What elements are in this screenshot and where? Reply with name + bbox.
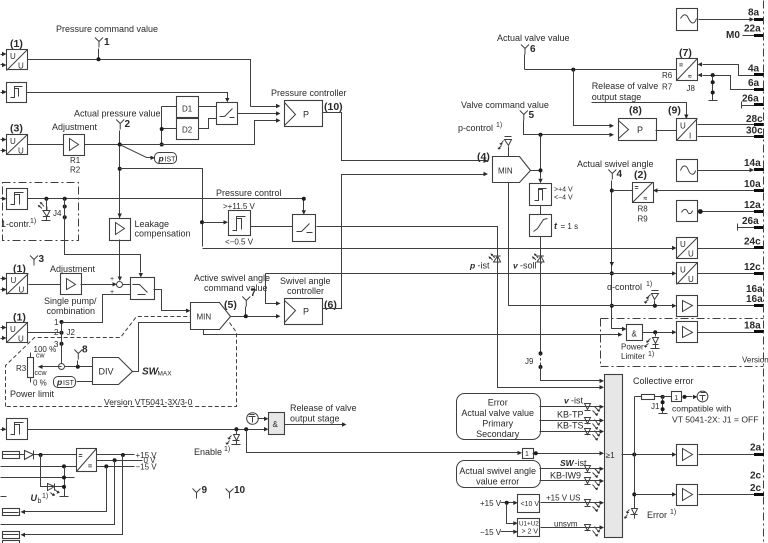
jumper J8 to ground: [712, 76, 714, 97]
svg-text:P: P: [303, 110, 309, 120]
svg-text:Swivel angle: Swivel angle: [280, 276, 331, 286]
wire supply input row3: [1, 477, 75, 479]
svg-text:Valve command value: Valve command value: [461, 100, 549, 110]
wire MIN5 output: [231, 316, 277, 318]
svg-text:MIN: MIN: [197, 313, 212, 322]
svg-text:Actual valve value: Actual valve value: [497, 33, 570, 43]
svg-text:1: 1: [104, 37, 110, 48]
svg-text:U: U: [18, 62, 24, 71]
svg-text:p: p: [469, 261, 475, 271]
svg-text:SW: SW: [560, 458, 575, 468]
svg-text:=: =: [679, 63, 683, 70]
svg-text:1: 1: [674, 395, 678, 402]
svg-text:IST: IST: [165, 157, 177, 164]
svg-text:7: 7: [251, 288, 257, 299]
switch S3 pump selector: [131, 278, 155, 300]
svg-text:cw: cw: [36, 353, 46, 360]
svg-text:U: U: [688, 250, 694, 259]
svg-text:D2: D2: [182, 126, 193, 135]
svg-text:14a: 14a: [744, 158, 761, 169]
LED 1-contr indicator: [46, 199, 48, 211]
fuse terminal 2: [3, 509, 20, 516]
svg-text:J2: J2: [67, 328, 76, 337]
characteristic selector D2: [177, 119, 199, 140]
amplifier 16a: [677, 296, 698, 317]
svg-text:(5): (5): [224, 299, 237, 311]
svg-text:R8: R8: [638, 205, 649, 214]
svg-text:5: 5: [529, 110, 535, 121]
wire supply input row2: [1, 466, 77, 468]
svg-text:+: +: [110, 276, 114, 283]
svg-text:output stage: output stage: [592, 92, 642, 102]
wire leakage to summing: [119, 240, 121, 277]
svg-text:P: P: [637, 125, 643, 135]
terminal 16a: [754, 304, 764, 307]
svg-text:J4: J4: [53, 209, 62, 218]
terminal 9: [193, 489, 201, 499]
wire enable to monitoring: [247, 430, 518, 453]
svg-text:KB-TS: KB-TS: [557, 421, 584, 431]
svg-text:=: =: [635, 185, 639, 192]
limiter block (hysteresis) row2: [7, 83, 27, 103]
op-amp P10 pressure controller: [285, 101, 323, 127]
svg-text:KB-TP: KB-TP: [557, 410, 584, 420]
display p-IST upper: [155, 153, 177, 164]
LED v-soll: [532, 253, 544, 264]
svg-text:Pressure controller: Pressure controller: [271, 88, 347, 98]
wire 0V return: [1, 461, 115, 525]
oscillator 12a: [677, 201, 698, 222]
svg-text:KB-IW9: KB-IW9: [550, 471, 581, 481]
border dash-dot right edge: [763, 1, 765, 543]
wire actual valve value net: [525, 69, 677, 71]
svg-text:6a: 6a: [748, 78, 760, 89]
dash-dot version sub-box right: [601, 319, 764, 367]
amplifier 2a: [677, 445, 698, 466]
svg-text:compatible with: compatible with: [672, 404, 731, 414]
svg-text:I: I: [689, 132, 691, 141]
svg-text:value error: value error: [476, 477, 519, 487]
wire 28c 30c outputs: [698, 125, 755, 137]
wire power limiter output 18a: [643, 332, 673, 334]
svg-text:p: p: [158, 154, 164, 164]
and-gate release: [269, 413, 285, 435]
lamp symbol collective: [697, 391, 708, 402]
svg-text:-ist: -ist: [571, 396, 583, 406]
svg-text:U: U: [680, 240, 686, 249]
svg-text:Actual valve value: Actual valve value: [461, 408, 534, 418]
wire release to U/I block: [592, 103, 687, 115]
wire to amplifier 2c: [635, 494, 673, 496]
limiter block 1-contr: [7, 189, 28, 210]
svg-text:16a: 16a: [746, 294, 763, 305]
svg-text:1: 1: [525, 451, 529, 458]
wire +15V rail: [97, 454, 135, 456]
terminal 26a lower test tap: [738, 224, 755, 231]
svg-text:30c: 30c: [746, 126, 763, 137]
svg-text:Single pump/: Single pump/: [44, 296, 97, 306]
terminal 12a: [754, 210, 764, 213]
svg-text:controller: controller: [287, 286, 324, 296]
timer symbol circle: [247, 413, 259, 425]
svg-text:28c: 28c: [746, 114, 763, 125]
svg-text:J8: J8: [687, 84, 696, 93]
wire summing to switch3: [123, 284, 131, 286]
svg-text:(4): (4): [477, 151, 490, 163]
wire swivel actual vertical: [612, 181, 623, 329]
terminal 7: [242, 297, 250, 307]
comparator U1+U2>2V: [507, 503, 514, 524]
svg-text:>+4 V: >+4 V: [554, 187, 573, 194]
wire D1 D2 inputs: [162, 107, 177, 145]
wire v-soll line down: [540, 237, 542, 354]
wire p-actual branch to 24c row: [120, 169, 203, 247]
svg-text:Power limit: Power limit: [10, 389, 55, 399]
oscillator 8a: [677, 9, 698, 31]
svg-text:Primary: Primary: [482, 419, 513, 429]
svg-text:Error: Error: [647, 510, 667, 520]
svg-text:Adjustment: Adjustment: [50, 264, 96, 274]
svg-text:6: 6: [530, 44, 536, 55]
svg-text:Pressure command value: Pressure command value: [56, 24, 158, 34]
ramp generator t=1s: [540, 206, 542, 215]
fuse terminal 3: [3, 532, 20, 539]
svg-text:J9: J9: [525, 357, 534, 366]
svg-text:1-contr.: 1-contr.: [1, 219, 31, 229]
summing circle power limit: [59, 364, 65, 370]
svg-text:Version: Version: [742, 356, 768, 365]
svg-text:R1: R1: [70, 156, 81, 165]
svg-text:output stage: output stage: [290, 414, 340, 424]
svg-text:+15 V: +15 V: [480, 499, 502, 508]
wire P6 output to MIN4: [323, 175, 484, 309]
fuse terminal 4 partial: [3, 541, 20, 543]
svg-text:12c: 12c: [744, 262, 761, 273]
svg-text:1): 1): [646, 281, 652, 288]
svg-text:R7: R7: [662, 83, 673, 92]
terminal 1: [95, 38, 103, 48]
svg-text:−15 V: −15 V: [136, 463, 158, 472]
wire MIN5 bottom tap bus: [204, 330, 619, 335]
svg-text:Collective error: Collective error: [633, 376, 694, 386]
terminal 2: [116, 120, 124, 130]
terminal 4a: [754, 73, 764, 76]
wire MIN4 output node: [531, 135, 541, 179]
amplifier 18a: [677, 322, 698, 343]
wire switch1 to P10: [238, 113, 277, 115]
wire input arrows block1: [1, 55, 3, 65]
svg-text:=: =: [88, 464, 92, 471]
and-gate power limiter: [627, 325, 643, 341]
svg-text:b: b: [38, 498, 42, 505]
LED enable: [236, 430, 238, 435]
wire -15V to fuse2: [25, 467, 107, 512]
diode supply: [19, 451, 77, 460]
svg-text:(1): (1): [10, 38, 23, 50]
LED power limiter: [655, 333, 657, 337]
comparator +-4V: [530, 184, 552, 206]
svg-text:18a: 18a: [744, 321, 761, 332]
svg-text:p-control: p-control: [458, 123, 493, 133]
delay box 1: [523, 449, 534, 459]
svg-text:combination: combination: [47, 306, 96, 316]
converter DC/DC supply: [77, 449, 97, 472]
wire 10a into (2): [658, 190, 755, 192]
svg-text:IST: IST: [63, 380, 75, 387]
svg-text:Power: Power: [621, 343, 644, 352]
wire R3 wiper: [39, 366, 62, 368]
converter U/U 24c: [677, 238, 698, 259]
wire -15V rail: [97, 466, 135, 468]
svg-text:>+11.5 V: >+11.5 V: [223, 202, 256, 211]
terminal 18a: [754, 330, 764, 333]
wire S2 output p-ist line: [317, 227, 600, 388]
oscillator 14a: [677, 160, 698, 182]
wire collective error output: [622, 454, 673, 456]
wire enable line: [28, 429, 265, 431]
svg-text:-ist: -ist: [478, 261, 490, 271]
error box valve: [457, 394, 541, 440]
terminal 6: [521, 45, 529, 55]
svg-text:U: U: [10, 137, 16, 146]
svg-text:1): 1): [670, 509, 676, 516]
terminal 12c: [754, 272, 764, 275]
terminal 14a: [754, 168, 764, 171]
svg-text:&: &: [632, 330, 638, 339]
svg-text:Actual pressure value: Actual pressure value: [74, 109, 161, 119]
LED p-ist: [488, 253, 500, 264]
svg-text:U: U: [19, 286, 25, 295]
LED alpha-control: [654, 301, 656, 306]
or-gate collective: [605, 375, 623, 538]
display p-IST lower: [54, 377, 76, 388]
svg-text:Actual swivel angle: Actual swivel angle: [577, 159, 654, 169]
LED p-control: [508, 147, 510, 157]
svg-text:10: 10: [234, 485, 246, 496]
switch S2 pressure control: [293, 215, 316, 242]
fuse terminal 1: [3, 452, 20, 459]
wire block2 to switch1: [27, 93, 228, 99]
svg-text:U: U: [11, 276, 17, 285]
dashed version box: [6, 317, 191, 407]
converter U/U 12c: [677, 263, 698, 284]
svg-text:Enable: Enable: [194, 447, 222, 457]
svg-text:(7): (7): [679, 47, 692, 59]
svg-text:compensation: compensation: [135, 229, 191, 239]
dash-dot box 1-contr: [3, 183, 79, 241]
svg-text:2: 2: [125, 119, 131, 130]
error box swivel: [457, 461, 541, 488]
amplifier R1 R2: [64, 135, 85, 156]
wire 0V rail: [97, 460, 143, 462]
wire 6a into (7): [703, 76, 755, 90]
svg-text:P: P: [303, 307, 309, 317]
svg-text:8: 8: [82, 345, 88, 356]
terminal 24c: [754, 246, 764, 249]
terminal 28c: [754, 123, 764, 126]
ground Ub: [60, 467, 69, 497]
svg-text:command value: command value: [204, 283, 268, 293]
wire release output: [285, 424, 343, 426]
svg-text:&: &: [273, 420, 279, 429]
svg-text:1): 1): [224, 446, 230, 453]
wire P10 output to MIN4: [323, 113, 484, 161]
wire MIN4 bottom tap to 16a row: [509, 183, 673, 306]
switch S1 characteristic select: [217, 103, 238, 125]
svg-text:1): 1): [30, 218, 36, 225]
wire pressure command net: [28, 60, 251, 107]
svg-text:−15 V: −15 V: [480, 528, 502, 537]
svg-text:U: U: [688, 275, 694, 284]
svg-text:-soll: -soll: [520, 261, 537, 271]
svg-text:<−0.5 V: <−0.5 V: [225, 238, 254, 247]
svg-text:2c: 2c: [750, 483, 762, 494]
svg-text:22a: 22a: [744, 24, 761, 35]
svg-text:8a: 8a: [748, 8, 760, 19]
svg-text:1): 1): [42, 493, 48, 500]
leakage compensation amp: [110, 219, 131, 241]
terminal 10: [226, 489, 234, 499]
svg-text:+15 V US: +15 V US: [546, 494, 580, 503]
svg-text:9: 9: [202, 485, 208, 496]
svg-text:p: p: [56, 377, 62, 387]
terminal 8: [74, 350, 82, 360]
comparator <10V: [518, 495, 540, 513]
limiter block enable row: [7, 419, 28, 440]
svg-text:(1): (1): [13, 312, 26, 324]
svg-text:Actual swivel angle: Actual swivel angle: [459, 466, 536, 476]
LED error: [631, 509, 638, 515]
delay box 1 collective: [661, 395, 665, 399]
svg-text:U: U: [680, 266, 686, 275]
wire alpha-ist to P6 input: [266, 274, 277, 304]
svg-text:4a: 4a: [748, 64, 760, 75]
terminal 10a: [754, 189, 764, 192]
wire amp row2 to summing: [29, 284, 113, 286]
svg-text:4: 4: [617, 169, 623, 180]
svg-text:Pressure control: Pressure control: [216, 188, 282, 198]
svg-text:ɑ-control: ɑ-control: [607, 282, 642, 292]
svg-text:26a: 26a: [742, 94, 759, 105]
terminal 4: [608, 170, 616, 180]
svg-text:= 1 s: = 1 s: [561, 222, 579, 231]
svg-text:1): 1): [496, 122, 502, 129]
svg-text:2a: 2a: [750, 443, 762, 454]
amplifier single pump: [61, 274, 82, 295]
svg-text:R6: R6: [662, 71, 673, 80]
svg-text:Active swivel angle: Active swivel angle: [194, 273, 270, 283]
svg-text:ccw: ccw: [35, 370, 48, 377]
characteristic selector D1: [177, 97, 199, 118]
svg-text:MIN: MIN: [498, 167, 513, 176]
svg-text:U: U: [18, 335, 24, 344]
svg-text:D1: D1: [182, 105, 193, 114]
terminal 8a: [754, 18, 764, 21]
svg-text:Error: Error: [488, 398, 508, 408]
amplifier 2c: [677, 485, 698, 506]
svg-text:3: 3: [39, 254, 45, 265]
svg-text:Leakage: Leakage: [135, 219, 170, 229]
svg-text:12a: 12a: [744, 200, 761, 211]
svg-text:VT 5041-2X: J1 = OFF: VT 5041-2X: J1 = OFF: [672, 415, 759, 425]
svg-text:DIV: DIV: [99, 367, 114, 377]
svg-text:(10): (10): [324, 101, 343, 113]
svg-text:MAX: MAX: [158, 371, 173, 378]
svg-text:1: 1: [54, 318, 59, 327]
terminal 26a test tap: [742, 102, 755, 109]
svg-text:2c: 2c: [750, 471, 762, 482]
wire J2-1 to switch3: [62, 295, 131, 323]
svg-text:Version VT5041-3X/3-0: Version VT5041-3X/3-0: [104, 397, 193, 407]
svg-text:≈: ≈: [644, 196, 648, 203]
wire 4a into (7): [703, 65, 755, 76]
wire S3 output to MIN5: [154, 290, 187, 311]
svg-text:U: U: [10, 325, 16, 334]
svg-text:R2: R2: [70, 166, 81, 175]
svg-text:Adjustment: Adjustment: [52, 122, 98, 132]
svg-text:(3): (3): [10, 123, 23, 135]
svg-text:U: U: [18, 147, 24, 156]
wire stub minus: [1, 496, 7, 498]
wire p-actual to P10 input3: [162, 121, 277, 145]
summing junction: [117, 282, 123, 288]
terminal 5: [520, 111, 528, 121]
terminal 3: [30, 256, 38, 266]
svg-text:1): 1): [648, 351, 654, 358]
wire to p-IST display: [120, 145, 151, 158]
svg-text:10a: 10a: [744, 179, 761, 190]
svg-text:≈: ≈: [688, 74, 692, 81]
wire 12c row alpha-ist: [266, 273, 673, 275]
op-amp P6 swivel controller: [285, 299, 323, 325]
svg-text:> 2 V: > 2 V: [522, 529, 539, 536]
svg-text:J1: J1: [651, 402, 660, 411]
terminal 30c: [754, 135, 764, 138]
svg-text:26a: 26a: [742, 216, 759, 227]
resistor collective: [635, 396, 663, 398]
wire pressure control line: [28, 199, 304, 211]
svg-text:(6): (6): [324, 299, 337, 311]
svg-text:<−4 V: <−4 V: [554, 195, 573, 202]
wire DIV output SW-MAX: [133, 323, 191, 372]
svg-text:R9: R9: [638, 215, 649, 224]
svg-text:U1+U2: U1+U2: [519, 521, 539, 528]
terminal 2c: [754, 493, 764, 496]
svg-text:M0: M0: [726, 30, 740, 41]
svg-text:Limiter: Limiter: [621, 352, 645, 361]
svg-text:U: U: [10, 52, 16, 61]
svg-text:=: =: [79, 453, 83, 460]
svg-text:(2): (2): [634, 169, 647, 181]
svg-text:U: U: [31, 493, 38, 503]
divider DIV: [93, 358, 133, 385]
svg-text:Secondary: Secondary: [476, 429, 520, 439]
wire branch to P8: [574, 70, 610, 126]
terminal 2a: [754, 453, 764, 456]
svg-text:U: U: [680, 122, 686, 131]
LED Ub: [41, 455, 65, 487]
wire J4 to switch3: [65, 199, 141, 273]
svg-text:Release of valve: Release of valve: [592, 81, 659, 91]
svg-text:24c: 24c: [744, 237, 761, 248]
svg-text:≥1: ≥1: [606, 451, 615, 460]
wire D1 D2 outputs: [199, 107, 217, 129]
svg-text:(9): (9): [668, 105, 681, 117]
svg-text:0 %: 0 %: [33, 379, 47, 388]
terminal 6a: [754, 88, 764, 91]
wire 24c row: [203, 248, 673, 250]
svg-text:<10 V: <10 V: [521, 501, 540, 508]
